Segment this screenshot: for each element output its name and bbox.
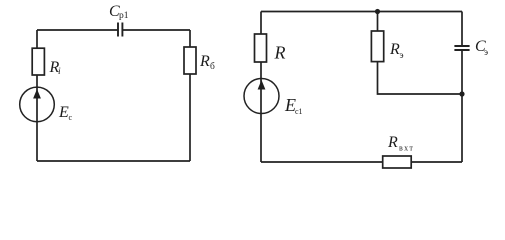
svg-text:R: R	[389, 41, 400, 58]
svg-text:б: б	[210, 61, 215, 72]
svg-text:р1: р1	[119, 11, 129, 21]
svg-text:э: э	[484, 48, 488, 58]
svg-text:вхт: вхт	[399, 144, 414, 153]
svg-text:с1: с1	[295, 107, 303, 116]
svg-text:с: с	[69, 113, 73, 122]
svg-text:i: i	[58, 67, 61, 77]
svg-text:E: E	[58, 104, 69, 121]
svg-text:R: R	[199, 53, 210, 70]
svg-text:э: э	[400, 51, 404, 61]
svg-text:R: R	[274, 43, 286, 63]
svg-text:R: R	[387, 134, 398, 151]
